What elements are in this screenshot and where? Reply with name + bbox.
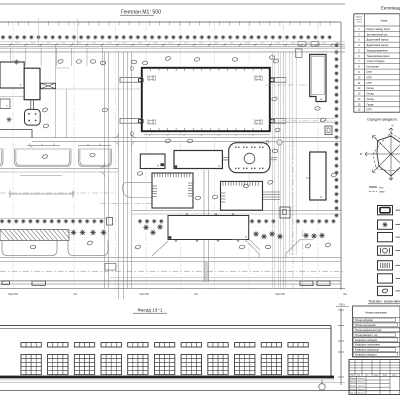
svg-text:15000: 15000	[123, 43, 127, 45]
svg-text:15000: 15000	[245, 43, 249, 45]
svg-text:Трансформаторна п: Трансформаторна п	[367, 55, 391, 58]
explication table	[354, 14, 400, 112]
svg-text:Лист: Лист	[365, 375, 369, 377]
building 14 north-east	[310, 55, 326, 102]
svg-text:Склад: Склад	[367, 98, 375, 101]
road edge extra south	[110, 277, 341, 279]
building 3 medium	[174, 151, 222, 169]
building 1 main factory block	[142, 68, 270, 131]
svg-text:Техніко- економічні: Техніко- економічні	[368, 298, 400, 303]
far west service road	[55, 46, 57, 138]
tree column east	[335, 44, 338, 47]
svg-text:Коефіцієнт забудови: Коефіцієнт забудови	[355, 339, 378, 342]
conifer tree groups	[71, 230, 77, 236]
svg-text:15000: 15000	[168, 43, 172, 45]
road axis east dash	[271, 119, 335, 121]
building 8a small	[140, 154, 165, 169]
tech-econ table	[353, 306, 400, 357]
svg-text:15000: 15000	[138, 43, 142, 45]
svg-text:Площа забудови: Площа забудови	[355, 320, 374, 322]
svg-text:3А: 3А	[343, 292, 347, 296]
road south	[0, 256, 341, 258]
axis south-east	[302, 230, 304, 292]
conifer trees west	[14, 59, 19, 64]
road below building 1	[0, 137, 341, 139]
legend symbols	[378, 206, 393, 215]
transformer box at tree row end	[107, 218, 113, 226]
svg-text:Коефіцієнт асфальтув.: Коефіцієнт асфальтув.	[355, 349, 380, 352]
building 8 tall block	[24, 68, 40, 100]
dimension line below building 1	[144, 134, 270, 136]
paved corner south of road	[123, 182, 156, 197]
building 13 east	[310, 152, 326, 200]
building 2 rounded with circle	[229, 143, 270, 173]
axis dash line east	[265, 84, 308, 86]
sheet bottom border line	[0, 390, 400, 392]
svg-text:Подп: Подп	[383, 375, 387, 377]
axis dash line west	[0, 192, 115, 194]
svg-text:Середня швидкість: Середня швидкість	[367, 117, 398, 121]
svg-text:15000: 15000	[107, 43, 111, 45]
svg-text:15000: 15000	[153, 43, 157, 45]
wind rose	[365, 128, 400, 180]
building 1 west galleries	[120, 78, 142, 83]
svg-text:КПП: КПП	[367, 76, 372, 79]
svg-text:Назва: Назва	[381, 20, 388, 23]
svg-text:Коефіцієнт використ.: Коефіцієнт використ.	[355, 354, 378, 357]
svg-text:15000: 15000	[230, 43, 234, 45]
svg-text:Очисні споруди: Очисні споруди	[367, 60, 386, 63]
building 1 column ticks	[150, 69, 261, 130]
svg-text:Експлікація: Експлікація	[381, 5, 400, 10]
svg-text:Площа асфальтних покр.: Площа асфальтних покр.	[355, 329, 382, 332]
svg-text:Склад: Склад	[367, 87, 375, 90]
south connector road	[203, 170, 205, 282]
svg-text:ТБ+48,5: ТБ+48,5	[147, 78, 157, 81]
svg-text:Генплан М1: 500: Генплан М1: 500	[121, 10, 161, 16]
svg-text:Дата: Дата	[393, 375, 397, 377]
dimension line south-west	[20, 175, 62, 177]
facade dimension line right	[340, 308, 342, 385]
svg-text:15000: 15000	[77, 43, 81, 45]
svg-text:0Аи 50: 0Аи 50	[8, 292, 18, 296]
site south boundary	[0, 280, 341, 282]
axis dash line south	[0, 270, 345, 272]
svg-text:Кол: Кол	[357, 375, 360, 377]
fence line north	[0, 21, 337, 23]
svg-text:Фасад 13−1: Фасад 13−1	[137, 307, 163, 312]
svg-text:КПП: КПП	[367, 71, 372, 74]
utility box near road	[105, 264, 116, 271]
facade axis bubble	[321, 380, 323, 384]
svg-text:Назва показників: Назва показників	[365, 310, 387, 314]
manhole south	[130, 132, 134, 136]
svg-text:1А: 1А	[73, 292, 77, 296]
wind rose legend	[369, 186, 377, 188]
hatched platform strip	[0, 230, 69, 241]
fence posts	[9, 21, 331, 26]
svg-text:Н.контр: Н.контр	[350, 389, 358, 391]
svg-text:15000: 15000	[46, 43, 50, 45]
manhole north	[130, 67, 134, 71]
svg-text:Заводоуправління: Заводоуправління	[367, 49, 389, 52]
north road edge	[0, 46, 345, 48]
svg-text:Додатковий корпус: Додатковий корпус	[367, 44, 390, 47]
small annex 6	[0, 99, 10, 109]
bush symbols	[58, 59, 64, 63]
svg-text:15000: 15000	[337, 43, 341, 45]
comb building west	[152, 173, 193, 208]
svg-text:2Аи 50: 2Аи 50	[275, 292, 285, 296]
svg-text:Разраб: Разраб	[350, 378, 357, 380]
west wall path	[0, 130, 32, 138]
svg-text:КПП: КПП	[367, 109, 372, 112]
svg-text:Иванов: Иванов	[358, 393, 365, 395]
east roads	[273, 52, 297, 288]
south lawn areas (rounded bottom corners)	[2, 241, 108, 256]
road mid-west	[0, 167, 118, 169]
svg-text:Иванов: Иванов	[358, 378, 365, 380]
svg-text:Площа використ. тер.: Площа використ. тер.	[355, 335, 378, 337]
tree row south near building 5	[139, 220, 142, 223]
survey grid axes	[13, 22, 318, 290]
small kiosk south-east	[280, 207, 290, 218]
building 13 stub	[306, 177, 310, 179]
road east branch	[271, 117, 335, 119]
west links	[0, 96, 24, 98]
svg-text:ТБ+48,5: ТБ+48,5	[147, 122, 157, 125]
svg-text:N: N	[392, 124, 394, 128]
svg-text:Додатковий корпус: Додатковий корпус	[367, 39, 390, 42]
west road fillets	[100, 133, 137, 177]
svg-text:№док: №док	[374, 374, 379, 377]
svg-text:Провер: Провер	[350, 382, 358, 384]
building 7	[0, 62, 24, 88]
svg-text:Корпус заводу пром: Корпус заводу пром	[367, 28, 390, 31]
svg-text:Площа озеленення: Площа озеленення	[355, 325, 376, 327]
svg-text:15000: 15000	[199, 43, 203, 45]
svg-text:КПП: КПП	[367, 82, 372, 85]
svg-text:плані: плані	[357, 21, 362, 24]
comb building east	[221, 181, 263, 210]
facade windows	[21, 343, 308, 375]
svg-text:15000: 15000	[276, 43, 280, 45]
north road upper edge	[0, 41, 345, 43]
facade ground line	[0, 376, 334, 379]
carport edge west	[27, 144, 111, 146]
svg-text:Консул: Консул	[350, 385, 357, 387]
svg-text:зима: зима	[379, 191, 385, 194]
north road inner edge	[0, 50, 345, 52]
svg-text:15000: 15000	[31, 43, 35, 45]
tree row south-east	[297, 220, 300, 223]
tree row south-middle	[251, 220, 254, 223]
tower stem	[30, 100, 32, 110]
svg-text:ТБ+48,5: ТБ+48,5	[254, 78, 264, 81]
tree row north	[2, 36, 5, 39]
cooling tower	[25, 109, 41, 125]
svg-text:Котельная: Котельная	[367, 66, 380, 69]
svg-text:2А: 2А	[194, 292, 198, 296]
diagonal path at building 5 east	[250, 240, 260, 250]
svg-text:літо: літо	[379, 186, 384, 189]
tree row south-west	[1, 220, 4, 223]
parked vehicles north-east	[298, 42, 306, 47]
circled marker 15	[277, 140, 282, 145]
svg-text:Иванов: Иванов	[358, 385, 365, 387]
svg-text:Заготівельний цех: Заготівельний цех	[367, 33, 389, 36]
west access road	[105, 52, 132, 299]
fence line above south-west trees	[0, 217, 107, 219]
lawn strip row (double outline, rounded bottoms)	[0, 149, 112, 167]
svg-text:Склад: Склад	[367, 93, 375, 96]
axis dash line west2	[100, 203, 160, 205]
svg-text:15000: 15000	[92, 43, 96, 45]
svg-text:12: 12	[390, 178, 392, 180]
svg-text:12: 12	[374, 153, 376, 155]
cross road west	[41, 88, 142, 90]
svg-text:15000: 15000	[184, 43, 188, 45]
gates on south boundary	[2, 281, 10, 285]
building 5 long south block	[168, 216, 249, 240]
south diagonal path corners	[232, 240, 259, 258]
svg-text:Иванов: Иванов	[358, 382, 365, 384]
dimension ticks	[9, 43, 333, 46]
facade outline	[0, 325, 331, 327]
svg-text:15000: 15000	[61, 43, 65, 45]
svg-text:Иванов: Иванов	[358, 389, 365, 391]
parking bays west	[11, 48, 103, 66]
svg-text:Зав.каф: Зав.каф	[350, 392, 358, 395]
fence axis verticals	[39, 18, 78, 46]
svg-text:12: 12	[375, 138, 377, 140]
gallery bowtie	[41, 83, 56, 89]
svg-text:1Аи 50: 1Аи 50	[139, 292, 149, 296]
building 1 east galleries	[270, 78, 286, 83]
svg-text:Коефіцієнт озеленення: Коефіцієнт озеленення	[355, 344, 380, 347]
fence corner east	[340, 22, 342, 290]
svg-text:ПВ-3: ПВ-3	[339, 303, 345, 306]
axis east vertical	[292, 140, 294, 290]
small kiosk east	[325, 126, 332, 135]
diagonal path corner west of building 5	[152, 241, 168, 256]
svg-text:15000: 15000	[15, 43, 19, 45]
svg-text:15000: 15000	[291, 43, 295, 45]
svg-text:12: 12	[376, 167, 378, 169]
svg-text:15000: 15000	[260, 43, 264, 45]
svg-text:12: 12	[390, 133, 392, 135]
svg-text:15000: 15000	[321, 43, 325, 45]
road mid	[132, 210, 341, 212]
north road dimension line	[0, 44, 345, 46]
svg-text:Гараж: Гараж	[367, 103, 374, 106]
svg-text:ТБ+48,5: ТБ+48,5	[254, 122, 264, 125]
svg-text:15000: 15000	[214, 43, 218, 45]
sheet top border line	[0, 3, 345, 5]
svg-text:15000: 15000	[306, 43, 310, 45]
title block stamp	[349, 360, 400, 395]
